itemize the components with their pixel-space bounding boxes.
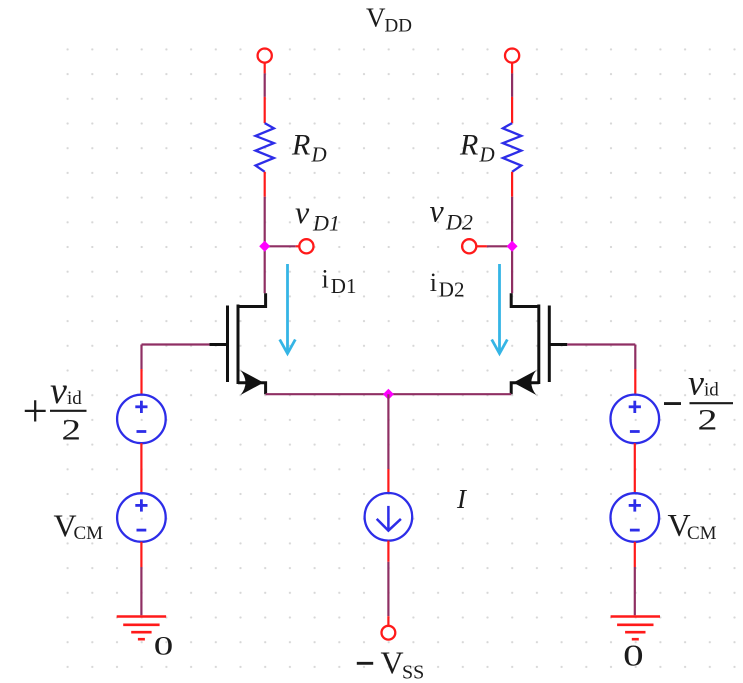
value label RD right bbox=[459, 129, 495, 167]
wire bbox=[511, 63, 513, 74]
value label RD left bbox=[291, 129, 327, 167]
wire bbox=[264, 73, 266, 97]
terminal probe vD2 bbox=[462, 239, 476, 253]
svg-text:0: 0 bbox=[154, 632, 174, 661]
ground right bbox=[611, 617, 660, 640]
current arrow iD2 bbox=[492, 264, 508, 354]
node junction vD2 bbox=[507, 241, 518, 252]
wire bbox=[296, 245, 300, 247]
wire bbox=[387, 616, 389, 626]
resistor RD left bbox=[256, 97, 274, 197]
transistor Q1 source arrow bbox=[241, 370, 264, 395]
svg-text:D2: D2 bbox=[439, 278, 465, 302]
label iD2 bbox=[430, 268, 465, 302]
voltage source V1 vid/2 left bbox=[117, 395, 166, 444]
label -vid/2 right bbox=[664, 363, 733, 437]
wire bbox=[140, 369, 142, 395]
svg-text:i: i bbox=[322, 265, 329, 294]
svg-text:V: V bbox=[381, 645, 404, 681]
wire bbox=[634, 369, 636, 395]
wire bbox=[387, 394, 389, 469]
wire bbox=[511, 73, 513, 97]
svg-text:i: i bbox=[430, 268, 437, 297]
wire bbox=[487, 245, 512, 247]
svg-text:+: + bbox=[23, 386, 48, 436]
svg-text:V: V bbox=[366, 3, 386, 33]
svg-text:v: v bbox=[688, 363, 704, 403]
svg-text:R: R bbox=[459, 129, 478, 162]
current source I1 bbox=[365, 493, 413, 541]
svg-text:CM: CM bbox=[687, 523, 717, 544]
svg-text:2: 2 bbox=[62, 414, 82, 447]
net label vD2 bbox=[430, 193, 473, 235]
wire bbox=[142, 343, 210, 345]
svg-text:DD: DD bbox=[385, 16, 412, 37]
voltage source V4 VCM right bbox=[611, 493, 660, 542]
ground left bbox=[117, 617, 166, 640]
svg-text:id: id bbox=[67, 388, 82, 409]
current arrow iD1 bbox=[280, 264, 296, 354]
label VCM right bbox=[668, 507, 717, 544]
transistor Q2 bbox=[511, 293, 567, 394]
transistor Q2 source arrow bbox=[513, 370, 536, 395]
terminal VDD right bbox=[505, 49, 519, 63]
wire bbox=[476, 245, 487, 247]
wire bbox=[387, 541, 389, 562]
wire bbox=[634, 345, 636, 370]
label +vid/2 left bbox=[23, 370, 87, 447]
svg-text:v: v bbox=[430, 193, 445, 229]
svg-text:R: R bbox=[291, 129, 310, 162]
voltage source V3 vid/2 right bbox=[611, 395, 660, 444]
wire bbox=[264, 63, 266, 74]
svg-text:SS: SS bbox=[402, 661, 424, 683]
terminal -VSS bbox=[382, 626, 396, 640]
svg-text:id: id bbox=[704, 380, 719, 401]
wire bbox=[387, 469, 389, 494]
wire bbox=[265, 245, 296, 247]
terminal VDD left bbox=[258, 49, 272, 63]
label VCM left bbox=[54, 508, 104, 544]
wire bbox=[511, 197, 513, 294]
node junction vD1 bbox=[259, 241, 270, 252]
wire bbox=[387, 562, 389, 616]
wire bbox=[634, 443, 636, 494]
svg-text:v: v bbox=[295, 194, 310, 230]
net label -VSS bbox=[357, 645, 424, 683]
wire bbox=[140, 567, 142, 615]
wire bbox=[140, 542, 142, 567]
svg-text:D2: D2 bbox=[445, 210, 473, 235]
wire bbox=[140, 345, 142, 370]
transistor Q1 bbox=[210, 293, 266, 394]
svg-text:D: D bbox=[479, 143, 495, 167]
svg-text:0: 0 bbox=[623, 638, 644, 673]
wire bbox=[140, 443, 142, 494]
net label vD1 bbox=[295, 194, 340, 236]
svg-text:D1: D1 bbox=[331, 274, 357, 298]
svg-text:v: v bbox=[50, 370, 67, 412]
svg-text:CM: CM bbox=[74, 523, 104, 544]
node junction tail bbox=[383, 389, 394, 400]
svg-text:2: 2 bbox=[698, 404, 718, 437]
voltage source V2 VCM left bbox=[117, 493, 166, 542]
wire tail bbox=[266, 393, 512, 395]
wire bbox=[264, 197, 266, 294]
svg-text:D: D bbox=[311, 143, 327, 167]
wire bbox=[567, 343, 635, 345]
wire bbox=[634, 542, 636, 567]
label iD1 bbox=[322, 265, 357, 299]
wire bbox=[634, 567, 636, 615]
net label VDD bbox=[366, 3, 412, 37]
resistor RD right bbox=[503, 97, 521, 197]
terminal probe vD1 bbox=[299, 239, 313, 253]
svg-text:D1: D1 bbox=[312, 211, 340, 236]
